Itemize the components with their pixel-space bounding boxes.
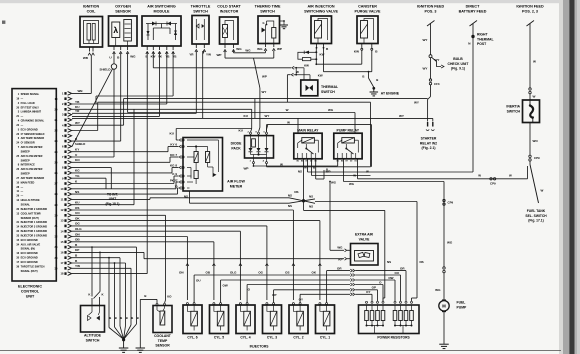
air flow meter terminals: [182, 139, 184, 141]
svg-text:WB: WB: [78, 89, 84, 93]
wire YR pin 3 to throttle switch: [72, 112, 196, 114]
wire YW pin row to ground bundle: [72, 267, 131, 269]
wire NS to junction: [72, 198, 150, 200]
svg-text:B: B: [120, 316, 122, 320]
svg-text:PURGE VALVE: PURGE VALVE: [355, 10, 381, 14]
svg-text:YG: YG: [75, 174, 80, 178]
svg-text:ECU GROUND: ECU GROUND: [21, 252, 38, 255]
wire KU pin 20 long row: [72, 108, 252, 110]
thermal switch wiring W: [287, 74, 290, 76]
svg-text:WG: WG: [328, 108, 334, 112]
svg-text:BULB: BULB: [453, 57, 463, 61]
svg-text:G: G: [262, 21, 264, 25]
svg-text:OLG: OLG: [75, 227, 82, 231]
svg-text:O² SENSOR SHIELD: O² SENSOR SHIELD: [21, 132, 45, 136]
wire W pump relay to fuel tank switch: [357, 159, 359, 179]
svg-text:SWITCH: SWITCH: [507, 109, 521, 113]
svg-text:FULL LOAD: FULL LOAD: [21, 102, 35, 105]
wire W wrap line around relays: [267, 124, 372, 126]
connector CF3: [429, 79, 431, 81]
svg-text:AIR TEMP. SENSOR: AIR TEMP. SENSOR: [21, 177, 45, 180]
oxygen sensor leads U / B / WG: [113, 46, 115, 50]
svg-text:MAIN RELAY: MAIN RELAY: [297, 128, 319, 132]
power resistor link wires with connectors: [327, 270, 350, 272]
connector in ignition feed: [529, 88, 531, 90]
svg-text:YR: YR: [189, 53, 194, 57]
fuel tank switch blade: [529, 161, 531, 164]
svg-text:B: B: [109, 316, 111, 320]
svg-text:KW: KW: [304, 63, 309, 67]
pump relay pins: [337, 153, 339, 159]
wire B main relay down: [311, 159, 313, 176]
svg-text:W: W: [287, 120, 290, 124]
svg-text:SWITCH: SWITCH: [193, 10, 208, 14]
diode pack top pins 2 8 5: [250, 132, 252, 134]
wire WG to extra air valve: [330, 249, 344, 251]
svg-text:W: W: [296, 70, 299, 74]
wire WG oxygen sensor heater bus to pump relay: [127, 53, 129, 113]
svg-text:YW: YW: [75, 264, 80, 268]
svg-text:M: M: [442, 304, 446, 309]
svg-text:KP: KP: [75, 248, 79, 252]
svg-text:SIGNAL (IN): SIGNAL (IN): [21, 248, 35, 251]
svg-text:THERMAL: THERMAL: [321, 85, 339, 89]
svg-text:DIRECT: DIRECT: [466, 5, 480, 9]
svg-text:OU: OU: [196, 279, 201, 283]
wire W inertia switch to fuel tank switch: [529, 123, 531, 156]
svg-text:OB: OB: [75, 238, 80, 242]
svg-text:(Fig. 9.1): (Fig. 9.1): [451, 67, 465, 71]
svg-text:CP9: CP9: [534, 156, 540, 160]
svg-text:OU: OU: [395, 271, 400, 275]
wire UO to coolant temp sensor: [72, 214, 166, 216]
svg-text:ECU GROUND: ECU GROUND: [21, 128, 38, 131]
svg-text:W: W: [366, 170, 369, 174]
svg-text:W: W: [478, 174, 481, 178]
svg-text:AIR SWITCHING: AIR SWITCHING: [147, 5, 176, 9]
svg-text:WG: WG: [331, 180, 337, 184]
interface bracket to INT unit: [72, 167, 111, 169]
svg-text:IGNITION FEED: IGNITION FEED: [516, 5, 544, 9]
svg-text:UO: UO: [167, 295, 172, 299]
svg-text:SWEEP: SWEEP: [21, 150, 30, 153]
svg-text:SWITCHING VALVE: SWITCHING VALVE: [304, 10, 338, 14]
svg-text:PUMP: PUMP: [457, 305, 468, 309]
wire KY to air flow meter: [72, 151, 168, 153]
svg-text:KU: KU: [75, 201, 80, 205]
thermal switch wiring KW: [153, 67, 291, 69]
svg-text:OY: OY: [299, 297, 303, 301]
svg-text:POWER RESISTORS: POWER RESISTORS: [377, 336, 410, 340]
wire NS junction to main relay: [303, 159, 305, 201]
svg-text:B: B: [362, 75, 364, 79]
svg-text:EXTRA AIR: EXTRA AIR: [355, 233, 374, 237]
svg-text:W: W: [533, 60, 536, 64]
svg-text:SIGNAL: SIGNAL: [21, 204, 31, 207]
svg-text:PUMP RELAY: PUMP RELAY: [337, 128, 360, 132]
svg-text:COOLANT: COOLANT: [154, 334, 172, 338]
svg-text:B: B: [376, 78, 378, 82]
svg-text:(Fig.18.1): (Fig.18.1): [106, 202, 120, 206]
wire WP net from cold start and thermo-time: [224, 51, 226, 58]
svg-text:BATTERY FEED: BATTERY FEED: [459, 10, 487, 14]
svg-text:WG: WG: [435, 288, 441, 292]
thermal switch box: [301, 80, 318, 96]
svg-text:OS: OS: [75, 206, 79, 210]
wire B main relay 81: [315, 159, 317, 179]
diode pack internal diodes: [252, 139, 256, 147]
svg-text:W: W: [286, 108, 289, 112]
svg-text:KG: KG: [75, 169, 80, 173]
svg-text:W: W: [509, 174, 512, 178]
ground for B bundle: [122, 338, 125, 341]
svg-text:OW: OW: [223, 284, 228, 288]
wire W from diode pack to relay frame: [266, 164, 268, 167]
diode pack bottom pins 3 4: [253, 155, 255, 162]
svg-text:KW: KW: [318, 74, 323, 78]
altitude switch box: [81, 306, 105, 333]
svg-text:INJECTOR 2 GROUND: INJECTOR 2 GROUND: [21, 208, 48, 211]
svg-text:KW: KW: [354, 50, 359, 54]
svg-text:NS: NS: [387, 260, 391, 264]
svg-text:OLG: OLG: [230, 271, 237, 275]
svg-text:KY 6: KY 6: [170, 143, 177, 147]
svg-text:INJECTOR: INJECTOR: [220, 10, 239, 14]
svg-text:INERTIA: INERTIA: [506, 105, 520, 109]
wire W branch to diode pack: [267, 125, 268, 130]
svg-text:SIGNAL (OUT): SIGNAL (OUT): [21, 270, 38, 273]
svg-text:MAIN FEED: MAIN FEED: [21, 181, 35, 184]
svg-text:W: W: [353, 174, 356, 178]
svg-text:ECU GROUND: ECU GROUND: [21, 257, 38, 260]
wire K pair to altitude switch: [72, 246, 137, 248]
svg-text:WO: WO: [533, 139, 539, 143]
svg-text:W: W: [533, 95, 536, 99]
air switching module internal diodes: [146, 23, 177, 25]
svg-text:CHECK UNIT: CHECK UNIT: [448, 62, 470, 66]
svg-text:B: B: [144, 294, 146, 298]
svg-text:WG: WG: [130, 55, 136, 59]
svg-text:SPEED SIGNAL: SPEED SIGNAL: [21, 93, 40, 96]
wire B module lead to last pin row: [72, 273, 147, 275]
svg-text:OG: OG: [75, 222, 80, 226]
svg-text:ECU GROUND: ECU GROUND: [21, 239, 38, 242]
wire NS junction to power resistors left group: [303, 201, 305, 211]
svg-text:WB: WB: [83, 56, 89, 60]
svg-text:OY: OY: [366, 290, 370, 294]
svg-text:COIL: COIL: [87, 10, 97, 14]
svg-text:CP9: CP9: [490, 182, 496, 186]
svg-text:WG: WG: [245, 49, 251, 53]
svg-text:CYL. 5: CYL. 5: [214, 336, 224, 340]
svg-text:OXYGEN: OXYGEN: [115, 5, 131, 9]
svg-text:INTERFACE: INTERFACE: [21, 164, 35, 167]
wire KW module lead down to thermal line: [152, 52, 154, 68]
svg-text:KO: KO: [75, 158, 80, 162]
wire KU branch to AFM and diode pack: [251, 109, 253, 126]
svg-text:ECU GROUND: ECU GROUND: [21, 261, 38, 264]
coolant temp sensor box: [153, 306, 172, 333]
svg-text:TO INT.: TO INT.: [107, 193, 118, 197]
svg-text:RIGHT: RIGHT: [477, 33, 488, 37]
svg-text:B: B: [126, 316, 128, 320]
svg-text:FUEL TANK: FUEL TANK: [527, 209, 546, 213]
svg-text:WG: WG: [447, 241, 453, 245]
svg-text:B: B: [137, 316, 139, 320]
svg-text:KU: KU: [170, 132, 175, 136]
svg-text:THROTTLE: THROTTLE: [191, 5, 211, 9]
svg-text:SWEEP: SWEEP: [21, 159, 30, 162]
wire YK module third lead: [159, 52, 161, 117]
air switching module leads: [146, 46, 148, 50]
svg-text:YW: YW: [206, 53, 211, 57]
wire YB2 module to ECU area: [172, 52, 174, 97]
top page edge shading: [0, 0, 580, 3]
svg-text:YR: YR: [75, 109, 80, 113]
svg-text:WG: WG: [337, 246, 343, 250]
svg-text:THERMAL: THERMAL: [477, 37, 494, 41]
svg-text:MODULE: MODULE: [154, 10, 171, 14]
svg-text:NS: NS: [298, 170, 302, 174]
svg-text:OS: OS: [285, 271, 289, 275]
svg-text:VALVE: VALVE: [359, 238, 371, 242]
svg-text:SWEEP: SWEEP: [21, 173, 30, 176]
svg-text:WP: WP: [244, 167, 249, 171]
svg-text:SEL. SWITCH: SEL. SWITCH: [525, 214, 547, 218]
right page fold shading: [559, 0, 563, 354]
wire B bundle to common ground: [130, 268, 132, 325]
wire KU second row to bus: [72, 204, 134, 206]
svg-text:KO 7: KO 7: [170, 153, 177, 157]
wire B module first lead down: [146, 52, 148, 274]
engine ground: [372, 87, 375, 90]
wire B oxygen sensor to pin 5: [120, 53, 122, 141]
ECU box (electronic control unit): [12, 89, 56, 281]
wire WB ignition coil to pin 1: [72, 92, 91, 94]
svg-text:B: B: [115, 316, 117, 320]
svg-text:INJECTOR 4 GROUND: INJECTOR 4 GROUND: [21, 230, 48, 233]
diode-resistor loop under air injection valve: [298, 52, 316, 59]
svg-text:WG: WG: [257, 47, 263, 51]
wire B from valves to engine ground: [323, 48, 325, 72]
wire N main relay to battery feed: [307, 159, 309, 172]
svg-text:STARTER: STARTER: [421, 137, 437, 141]
svg-text:OP: OP: [372, 286, 376, 290]
svg-text:CYL. 6: CYL. 6: [187, 336, 197, 340]
svg-text:COOLANT TEMP.: COOLANT TEMP.: [21, 212, 42, 215]
svg-text:OW: OW: [388, 276, 393, 280]
svg-text:SWITCH: SWITCH: [86, 339, 100, 343]
svg-text:INJECTOR 1 GROUND: INJECTOR 1 GROUND: [21, 221, 48, 224]
wire YW throttle switch joining relay feed line: [72, 117, 433, 119]
svg-text:λ: λ: [113, 25, 118, 35]
svg-text:YB: YB: [75, 100, 80, 104]
thermo time switch leads WG / WP: [265, 44, 267, 48]
svg-text:(Fig. 17.1): (Fig. 17.1): [528, 219, 543, 223]
svg-text:KU: KU: [244, 114, 249, 118]
wire WP pump relay to diode pack: [337, 159, 339, 166]
fuel pump connector: [443, 267, 445, 269]
svg-text:AT ENGINE: AT ENGINE: [381, 92, 400, 96]
wire WG cold-start to thermo-time: [233, 51, 235, 53]
svg-text:CYL. 2: CYL. 2: [293, 336, 303, 340]
svg-text:SHIELD: SHIELD: [99, 68, 111, 72]
svg-text:INJECTOR 3 GROUND: INJECTOR 3 GROUND: [21, 226, 48, 229]
svg-text:POS. 3: POS. 3: [425, 10, 437, 14]
svg-text:NS: NS: [309, 205, 313, 209]
fuel pump ground: [443, 312, 445, 344]
main relay pins: [297, 153, 299, 159]
svg-text:NS: NS: [288, 193, 292, 197]
svg-text:WY: WY: [262, 90, 267, 94]
svg-text:YB: YB: [165, 55, 169, 59]
NS junction bowtie: [289, 198, 304, 201]
svg-text:HIGH ALTITUDE: HIGH ALTITUDE: [21, 199, 40, 202]
svg-text:NS: NS: [75, 190, 79, 194]
KW cross link: [295, 68, 297, 75]
svg-text:AIR INJECTION: AIR INJECTION: [307, 5, 334, 9]
svg-text:AIR FLOW METER: AIR FLOW METER: [21, 146, 43, 149]
connector CP9 on W wire: [490, 178, 492, 180]
svg-text:CF3: CF3: [434, 82, 440, 86]
svg-text:FUEL: FUEL: [457, 301, 466, 305]
svg-text:ON: ON: [75, 232, 80, 236]
svg-text:ON: ON: [179, 271, 184, 275]
injector feed wires from ECU: [72, 209, 293, 211]
air injection switching valve leads: [316, 44, 318, 48]
svg-text:WP: WP: [277, 47, 282, 51]
extra air valve leads: [347, 249, 351, 251]
svg-text:B: B: [131, 316, 133, 320]
connector CP9 below inertia switch: [529, 155, 531, 157]
wire WY pin 4 to top bus to starter relay: [72, 124, 124, 126]
wire NS junction to power resistors right group: [315, 201, 417, 203]
svg-text:AUX. AIR VALVE: AUX. AIR VALVE: [21, 243, 41, 246]
svg-text:DIODE: DIODE: [231, 142, 242, 146]
svg-text:OP: OP: [272, 293, 276, 297]
svg-text:COLD START: COLD START: [217, 5, 241, 9]
canister purge valve leads KW / B: [361, 44, 363, 49]
svg-text:LAMBDA INHIBIT: LAMBDA INHIBIT: [21, 111, 42, 114]
svg-text:SWITCH: SWITCH: [321, 90, 335, 94]
svg-text:SENSOR: SENSOR: [155, 344, 170, 348]
connector CP9 on WG wire: [443, 199, 445, 201]
throttle switch leads YR / YW: [195, 44, 197, 48]
ignition coil leads: [89, 47, 91, 52]
svg-text:ELECTRONIC: ELECTRONIC: [18, 285, 42, 289]
bottom rule: [0, 349, 561, 351]
svg-text:AIR TEMP. SENSOR: AIR TEMP. SENSOR: [21, 137, 45, 140]
wire YB pin 2 to air switching module: [72, 103, 167, 105]
svg-text:CONTROL: CONTROL: [21, 289, 40, 293]
svg-text:WP: WP: [217, 53, 222, 57]
svg-text:THERMO TIME: THERMO TIME: [255, 5, 281, 9]
svg-text:NS: NS: [294, 190, 298, 194]
svg-text:INJECTOR 5 GROUND: INJECTOR 5 GROUND: [21, 234, 48, 237]
svg-text:AIR FLOW: AIR FLOW: [227, 180, 245, 184]
svg-text:UO: UO: [75, 211, 80, 215]
injector boxes cylinder row: [183, 305, 202, 334]
svg-text:WP: WP: [262, 75, 267, 79]
svg-text:SHIELD: SHIELD: [75, 142, 85, 146]
svg-text:WG: WG: [236, 47, 242, 51]
left margin speck: [2, 21, 5, 24]
svg-text:SWITCH: SWITCH: [260, 10, 275, 14]
svg-text:POS. 2, 3: POS. 2, 3: [522, 10, 538, 14]
svg-text:EFI TEST ONLY: EFI TEST ONLY: [21, 106, 40, 109]
svg-text:NS: NS: [420, 260, 424, 264]
svg-text:O² SENSOR: O² SENSOR: [21, 141, 35, 145]
wire W main feed bus: [97, 102, 99, 130]
svg-text:KG 8: KG 8: [170, 164, 177, 168]
svg-text:THROTTLE SWITCH: THROTTLE SWITCH: [21, 265, 45, 268]
svg-text:K 9: K 9: [172, 172, 177, 176]
coolant sensor ground: [140, 298, 157, 300]
svg-text:IGNITION FEED: IGNITION FEED: [417, 5, 445, 9]
bulb check unit tap: [429, 55, 432, 58]
svg-text:TEMP: TEMP: [158, 339, 168, 343]
svg-text:OK: OK: [75, 216, 80, 220]
svg-text:(Fig. 2.1): (Fig. 2.1): [422, 146, 436, 150]
wire WP from diode pack: [253, 164, 255, 166]
svg-text:CANISTER: CANISTER: [358, 5, 377, 9]
svg-text:CYL. 3: CYL. 3: [267, 336, 277, 340]
svg-text:NS: NS: [309, 195, 313, 199]
svg-text:METER: METER: [230, 185, 243, 189]
svg-text:UNIT: UNIT: [26, 294, 35, 298]
svg-text:CRANKING SIGNAL: CRANKING SIGNAL: [21, 120, 45, 123]
wire WG pump relay to fuel pump: [343, 159, 345, 182]
power resistors box: [359, 305, 420, 334]
svg-text:CYL. 4: CYL. 4: [240, 336, 250, 340]
svg-text:CP9: CP9: [448, 201, 454, 205]
svg-text:WG: WG: [349, 182, 355, 186]
svg-text:PACK: PACK: [231, 146, 241, 150]
svg-text:CYL. 1: CYL. 1: [320, 336, 330, 340]
svg-text:RELAY W2: RELAY W2: [420, 141, 437, 145]
svg-text:NS: NS: [288, 204, 292, 208]
wire KW loop to canister purge valve: [315, 59, 317, 64]
svg-text:WP: WP: [326, 170, 331, 174]
svg-text:WY: WY: [265, 114, 270, 118]
staircase wires ECU to air flow meter: [72, 161, 170, 163]
svg-text:KP: KP: [338, 258, 342, 262]
air flow meter internals: [194, 152, 198, 163]
svg-text:INJECTORS: INJECTORS: [250, 345, 270, 349]
fuel pump motor: [439, 301, 449, 311]
svg-text:AIR FLOW METER: AIR FLOW METER: [21, 155, 43, 158]
oxygen sensor shield: [111, 64, 116, 69]
svg-text:OG: OG: [258, 271, 263, 275]
air flow meter box: [183, 138, 223, 192]
svg-text:W: W: [541, 189, 544, 193]
svg-text:IGNITION: IGNITION: [83, 5, 100, 9]
air flow meter NS lead: [189, 191, 191, 203]
svg-text:SENSOR (OUT): SENSOR (OUT): [21, 217, 39, 220]
svg-text:KU: KU: [239, 129, 244, 133]
cold start injector leads WP / WG: [224, 44, 226, 48]
starter relay W2 connector: [428, 122, 433, 127]
diode pack box: [245, 136, 274, 158]
svg-text:AIR FLOW METER: AIR FLOW METER: [21, 168, 43, 171]
svg-text:SENSOR: SENSOR: [115, 10, 131, 14]
thermo time switch ground: [280, 20, 285, 22]
svg-text:ALTITUDE: ALTITUDE: [84, 334, 102, 338]
svg-text:POST: POST: [477, 42, 487, 46]
wire KW air-injection valve to loop: [315, 48, 317, 53]
